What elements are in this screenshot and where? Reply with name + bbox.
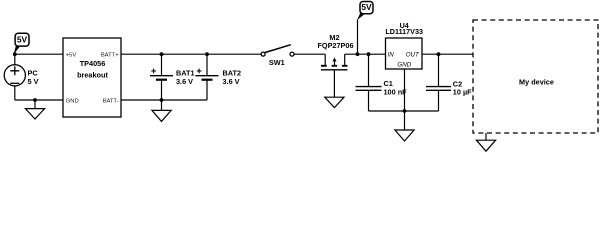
junction: 5V output flag [356,52,360,56]
svg-text:BATT-: BATT- [103,98,119,104]
ground (input) [25,100,44,119]
junction: U4 GND [403,109,407,113]
wire: SW1 to M2 source [294,53,325,55]
wire: M2 drain to U4 IN [345,53,386,55]
wire: C2 down to output ground rail [438,90,440,111]
svg-text:FQP27P06: FQP27P06 [317,41,353,50]
ground (My device) [476,140,495,151]
svg-text:5V: 5V [17,35,28,45]
load block: My device [473,20,598,133]
wire: M2 gate down to ground [333,70,335,97]
junction on input ground rail [33,98,37,102]
svg-text:SW1: SW1 [269,58,285,67]
svg-text:100 nF: 100 nF [384,87,408,96]
capacitor C2 [426,87,451,91]
wire: My device down to ground [485,133,487,140]
wire: 5V node down to V1 + terminal [14,54,16,64]
junction: BAT1 + [160,52,164,56]
battery BAT1 [150,69,173,80]
label M2 FQP27P06 [317,33,353,50]
svg-text:10 µF: 10 µF [453,88,472,97]
svg-text:TP4056: TP4056 [80,59,106,68]
capacitor C1 [356,87,382,91]
switch SW1 [261,45,294,56]
regulator U4 LD1117V33 [385,21,423,69]
transistor M2 (P-MOSFET) [321,54,348,70]
junction: C1 [367,52,371,56]
svg-text:3.6 V: 3.6 V [223,77,240,86]
wire: rail down to BAT1 [161,54,163,75]
voltage source V1 [4,65,25,86]
junction: flag/V1/wire corner [13,52,17,56]
wire: rail down to BAT2 [206,54,208,75]
svg-text:3.6 V: 3.6 V [176,77,193,86]
junction: C2 [437,52,441,56]
svg-text:OUT: OUT [406,51,420,58]
wire: BAT2 - down to ground rail [206,80,208,100]
svg-text:+5V: +5V [66,53,77,59]
junction: BAT1 - / ground [160,98,164,102]
IC U? TP4056 breakout box [63,38,121,117]
svg-text:GND: GND [397,61,411,68]
value label PC 5 V [28,69,39,87]
ground (regulator) [395,130,414,141]
wire: rail down to C1 [368,54,370,86]
wire: input ground rail to TP4056 GND pin [15,99,63,101]
wire: BATT+ to SW1 [121,53,261,55]
svg-text:GND: GND [66,98,79,104]
wire: battery ground rail (BATT- to BAT2) [121,99,207,101]
svg-text:BATT+: BATT+ [101,53,119,59]
ground (M2 gate) [325,97,344,107]
ground (battery rail) [152,100,171,121]
svg-text:IN: IN [388,51,395,58]
value label BAT2 3.6 V [223,69,242,86]
power flag 5V (input net) [14,33,29,54]
junction: BAT2 + [205,52,209,56]
wire: U4 OUT to My device [422,53,473,55]
svg-text:breakout: breakout [77,70,108,79]
value label C1 100 nF [384,79,408,96]
svg-text:My device: My device [519,78,554,87]
wire: BAT1 - down to ground rail [161,80,163,100]
battery BAT2 [196,69,219,80]
wire: rail down to C2 [438,54,440,86]
wire: 5V node to TP4056 +5V pin [15,53,64,55]
wire: output ground rail C1 to C2 [369,110,439,112]
wire: V1 - terminal down to ground rail [14,86,16,100]
svg-text:5V: 5V [361,2,372,12]
wire: U4 GND pin down to ground [404,69,406,130]
power flag 5V (output net) [357,2,373,55]
wire: C1 down to output ground rail [368,90,370,111]
value label C2 10 uF [453,80,472,97]
svg-text:5 V: 5 V [28,77,39,86]
value label BAT1 3.6 V [176,69,195,86]
svg-text:LD1117V33: LD1117V33 [385,27,423,36]
